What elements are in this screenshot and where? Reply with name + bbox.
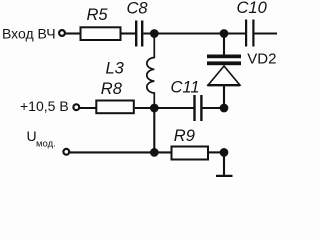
wire vertical (junction C to bottom rail) (153, 108, 155, 152)
capacitor C8 (127, 0, 149, 47)
svg-text:C11: C11 (171, 78, 200, 96)
ground (216, 175, 233, 177)
wire output to right edge (255, 32, 278, 34)
inductor L3 (106, 34, 155, 109)
svg-text:L3: L3 (106, 60, 125, 78)
capacitor C10 (237, 0, 268, 46)
node junction D (VD2 anode / C11) (220, 104, 229, 113)
wire to ground (223, 152, 225, 175)
node Uмод (modulation input terminal) (27, 128, 70, 155)
node junction A (C8/L3) (150, 29, 159, 38)
svg-text:Вход ВЧ: Вход ВЧ (2, 26, 56, 42)
wire (80, 107, 96, 109)
wire middle rail (135, 107, 194, 109)
wire bottom rail (70, 151, 171, 153)
resistor R5 (81, 6, 121, 40)
node junction C (L3 bottom / R8 / C11) (150, 104, 159, 113)
node junction F (R9 / ground) (220, 148, 229, 157)
wire (203, 107, 225, 109)
svg-text:VD2: VD2 (247, 51, 276, 68)
svg-text:R5: R5 (87, 6, 109, 24)
wire (66, 32, 81, 34)
wire (122, 32, 136, 34)
svg-text:C8: C8 (127, 0, 149, 17)
svg-text:мод.: мод. (36, 139, 56, 150)
svg-text:R8: R8 (101, 80, 123, 98)
resistor R9 (172, 127, 209, 160)
wire top rail (143, 32, 245, 34)
capacitor C11 (171, 78, 202, 121)
node junction B (VD2 top) (220, 29, 229, 38)
node +10,5 В (supply terminal) (20, 98, 79, 114)
wire (209, 151, 224, 153)
resistor R8 (96, 80, 134, 113)
diode VD2 (varicap) (207, 34, 276, 109)
node Вход ВЧ (RF input terminal) (2, 26, 65, 42)
svg-text:C10: C10 (237, 0, 268, 17)
node junction E (Uмод / R9) (150, 148, 159, 157)
svg-text:+10,5 В: +10,5 В (20, 98, 69, 114)
svg-text:R9: R9 (174, 127, 195, 145)
